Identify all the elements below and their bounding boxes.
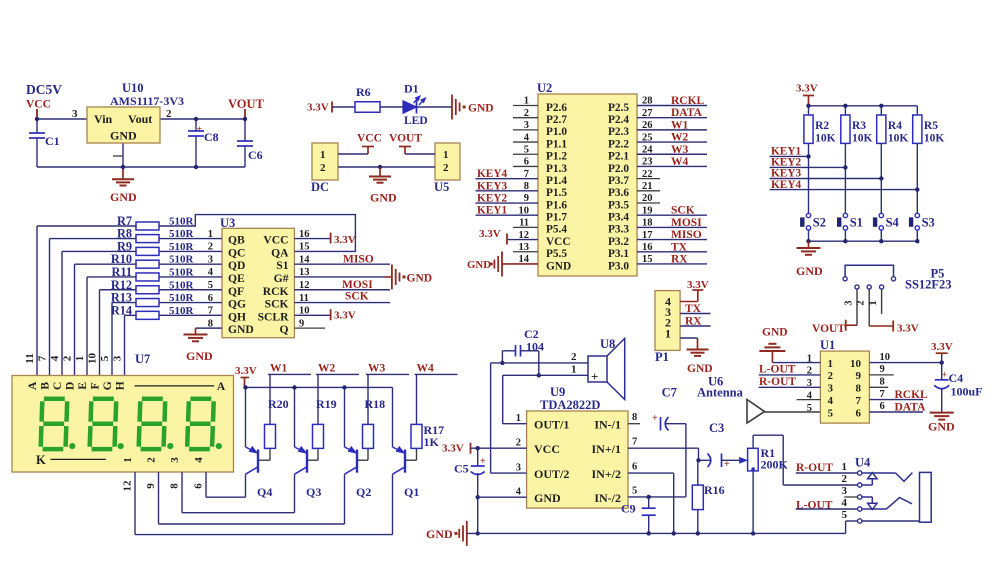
- svg-text:IN-/1: IN-/1: [594, 418, 621, 432]
- svg-text:7: 7: [37, 355, 49, 361]
- svg-text:P3.7: P3.7: [608, 175, 629, 187]
- svg-text:GND: GND: [228, 323, 254, 336]
- svg-text:L-OUT: L-OUT: [759, 364, 796, 376]
- svg-text:U9: U9: [550, 385, 565, 399]
- svg-text:OUT/1: OUT/1: [534, 418, 569, 432]
- svg-text:10: 10: [850, 358, 862, 370]
- svg-text:SS12F23: SS12F23: [905, 278, 952, 292]
- svg-text:1: 1: [122, 457, 134, 463]
- svg-text:W2: W2: [318, 363, 336, 375]
- svg-text:U4: U4: [855, 456, 871, 470]
- svg-text:B: B: [40, 382, 52, 390]
- svg-text:2: 2: [146, 457, 158, 463]
- svg-text:L-OUT: L-OUT: [796, 500, 833, 512]
- svg-text:10K: 10K: [924, 133, 945, 145]
- svg-text:P2.0: P2.0: [608, 163, 629, 175]
- svg-text:VCC: VCC: [357, 133, 382, 145]
- svg-text:SCK: SCK: [265, 298, 289, 311]
- svg-text:P3.0: P3.0: [608, 260, 629, 272]
- svg-text:8: 8: [169, 483, 181, 489]
- svg-text:C5: C5: [454, 462, 469, 476]
- svg-text:P3.5: P3.5: [608, 199, 629, 211]
- svg-text:7: 7: [856, 395, 862, 407]
- svg-text:IN-/2: IN-/2: [594, 491, 621, 505]
- svg-text:R2: R2: [815, 120, 829, 132]
- svg-text:2: 2: [516, 437, 521, 448]
- svg-text:8: 8: [880, 377, 885, 388]
- svg-text:R-OUT: R-OUT: [796, 462, 833, 474]
- svg-text:SCK: SCK: [345, 291, 369, 303]
- svg-text:Antenna: Antenna: [697, 386, 744, 400]
- svg-text:P3.6: P3.6: [608, 187, 629, 199]
- svg-text:VOUT: VOUT: [228, 97, 265, 111]
- svg-text:10K: 10K: [888, 133, 909, 145]
- svg-text:D1: D1: [404, 82, 419, 96]
- svg-text:1: 1: [320, 149, 326, 161]
- svg-text:IN+/1: IN+/1: [591, 442, 621, 456]
- svg-text:1K: 1K: [424, 435, 440, 449]
- svg-text:GND: GND: [370, 191, 397, 205]
- svg-text:P3.4: P3.4: [608, 212, 629, 224]
- svg-text:QC: QC: [228, 246, 245, 259]
- svg-text:IN+/2: IN+/2: [591, 467, 621, 481]
- svg-text:G: G: [102, 381, 114, 390]
- svg-text:P2.1: P2.1: [608, 151, 629, 163]
- svg-text:A: A: [27, 381, 39, 390]
- svg-text:6: 6: [880, 401, 885, 412]
- svg-text:GND: GND: [687, 363, 713, 375]
- svg-text:Q3: Q3: [306, 485, 321, 499]
- svg-text:W3: W3: [671, 144, 689, 156]
- svg-text:DATA: DATA: [895, 402, 927, 414]
- svg-text:10K: 10K: [852, 133, 873, 145]
- svg-text:1: 1: [842, 461, 848, 473]
- svg-text:2: 2: [320, 162, 326, 174]
- svg-text:R18: R18: [365, 397, 386, 411]
- svg-text:RX: RX: [671, 253, 688, 265]
- svg-text:RCKL: RCKL: [671, 95, 705, 107]
- svg-text:Vout: Vout: [128, 112, 152, 126]
- svg-text:3.3V: 3.3V: [796, 83, 818, 95]
- svg-text:TX: TX: [685, 303, 702, 315]
- svg-text:SCLR: SCLR: [258, 310, 290, 323]
- svg-text:E: E: [77, 382, 89, 390]
- svg-text:P1.7: P1.7: [546, 212, 567, 224]
- svg-text:P2.4: P2.4: [608, 114, 629, 126]
- svg-text:3.3V: 3.3V: [334, 309, 356, 321]
- svg-text:1: 1: [571, 364, 577, 376]
- svg-text:9: 9: [880, 364, 885, 375]
- svg-text:KEY2: KEY2: [477, 193, 507, 205]
- svg-text:5: 5: [842, 509, 848, 521]
- svg-text:C3: C3: [709, 421, 724, 435]
- svg-text:C7: C7: [662, 386, 677, 400]
- svg-text:W3: W3: [368, 363, 386, 375]
- svg-text:W4: W4: [671, 156, 689, 168]
- svg-text:R-OUT: R-OUT: [759, 376, 796, 388]
- svg-text:1: 1: [868, 301, 879, 306]
- svg-text:11: 11: [24, 353, 36, 363]
- svg-text:3.3V: 3.3V: [897, 322, 919, 334]
- svg-text:6: 6: [193, 483, 205, 489]
- svg-text:1: 1: [828, 358, 834, 370]
- svg-text:W1: W1: [671, 119, 689, 131]
- svg-text:1: 1: [74, 356, 86, 362]
- svg-text:Q2: Q2: [356, 485, 371, 499]
- svg-text:Q: Q: [279, 323, 288, 336]
- svg-text:R5: R5: [924, 120, 938, 132]
- svg-text:QG: QG: [228, 298, 246, 311]
- svg-text:4: 4: [49, 355, 61, 361]
- svg-text:4: 4: [516, 486, 522, 497]
- svg-text:P2.7: P2.7: [546, 114, 567, 126]
- svg-text:U10: U10: [122, 81, 144, 95]
- svg-text:QH: QH: [228, 310, 246, 323]
- svg-text:U2: U2: [537, 81, 552, 95]
- svg-text:GND: GND: [534, 491, 561, 505]
- svg-text:2: 2: [571, 351, 577, 363]
- svg-text:U7: U7: [135, 352, 150, 366]
- svg-text:7: 7: [880, 389, 885, 400]
- svg-text:P3.2: P3.2: [608, 236, 629, 248]
- svg-text:P3.3: P3.3: [608, 224, 629, 236]
- svg-text:10K: 10K: [815, 133, 836, 145]
- svg-text:2: 2: [856, 301, 867, 306]
- svg-text:VCC: VCC: [546, 236, 570, 248]
- svg-text:7: 7: [632, 436, 637, 447]
- svg-text:DC5V: DC5V: [26, 82, 62, 97]
- svg-text:+: +: [591, 369, 598, 384]
- svg-text:U5: U5: [434, 180, 449, 194]
- svg-text:3: 3: [516, 462, 521, 473]
- svg-text:RCK: RCK: [263, 285, 289, 298]
- svg-text:R3: R3: [852, 120, 866, 132]
- svg-text:9: 9: [145, 483, 157, 489]
- svg-text:1: 1: [665, 327, 671, 341]
- svg-text:S4: S4: [886, 216, 900, 230]
- svg-text:LED: LED: [404, 115, 428, 127]
- svg-text:QD: QD: [228, 259, 245, 272]
- svg-text:S1: S1: [850, 216, 863, 230]
- svg-text:4: 4: [828, 395, 834, 407]
- svg-text:GND: GND: [796, 264, 823, 278]
- svg-text:5: 5: [807, 403, 812, 414]
- svg-text:GND: GND: [110, 129, 137, 143]
- svg-text:VCC: VCC: [534, 442, 560, 456]
- svg-text:C4: C4: [949, 371, 964, 385]
- svg-text:+: +: [652, 413, 658, 424]
- svg-text:P1.5: P1.5: [546, 187, 567, 199]
- svg-text:3.3V: 3.3V: [931, 341, 953, 353]
- svg-text:6: 6: [632, 461, 637, 472]
- svg-text:2: 2: [166, 108, 172, 120]
- svg-text:GND: GND: [546, 260, 571, 272]
- svg-text:W4: W4: [417, 363, 435, 375]
- svg-text:3: 3: [112, 355, 124, 361]
- svg-text:3.3V: 3.3V: [687, 279, 709, 291]
- svg-text:3: 3: [842, 485, 848, 497]
- svg-text:P1.2: P1.2: [546, 151, 567, 163]
- svg-text:SCK: SCK: [671, 205, 695, 217]
- svg-text:P2.6: P2.6: [546, 102, 567, 114]
- svg-text:R16: R16: [704, 483, 725, 497]
- svg-text:VOUT: VOUT: [812, 323, 845, 335]
- svg-text:R4: R4: [888, 120, 902, 132]
- svg-text:MISO: MISO: [671, 229, 702, 241]
- svg-text:Vin: Vin: [94, 112, 113, 126]
- svg-text:QF: QF: [228, 285, 244, 298]
- svg-text:AMS1117-3V3: AMS1117-3V3: [110, 94, 184, 108]
- svg-text:W2: W2: [671, 132, 689, 144]
- svg-text:C6: C6: [248, 148, 263, 162]
- svg-text:6: 6: [856, 407, 862, 419]
- svg-text:100uF: 100uF: [951, 385, 983, 399]
- svg-text:DC: DC: [311, 180, 329, 194]
- svg-text:1: 1: [443, 149, 449, 161]
- svg-text:2: 2: [828, 370, 834, 382]
- svg-text:1: 1: [516, 413, 521, 424]
- svg-text:TDA2822D: TDA2822D: [540, 398, 600, 412]
- svg-text:10: 10: [880, 352, 891, 363]
- svg-text:P5.4: P5.4: [546, 224, 567, 236]
- svg-text:VOUT: VOUT: [389, 133, 422, 145]
- svg-text:GND: GND: [110, 190, 137, 204]
- svg-text:QB: QB: [228, 234, 245, 247]
- svg-text:GND: GND: [467, 259, 491, 271]
- svg-text:MOSI: MOSI: [671, 217, 702, 229]
- svg-text:5: 5: [828, 407, 834, 419]
- svg-text:2: 2: [443, 162, 449, 174]
- svg-text:A: A: [217, 381, 226, 393]
- svg-text:S2: S2: [813, 216, 826, 230]
- svg-text:200K: 200K: [761, 458, 789, 472]
- svg-text:R19: R19: [316, 397, 337, 411]
- svg-text:GND: GND: [186, 349, 213, 363]
- svg-text:8: 8: [632, 412, 637, 423]
- svg-text:3.3V: 3.3V: [479, 228, 501, 240]
- svg-text:MOSI: MOSI: [342, 279, 373, 291]
- svg-text:U3: U3: [220, 216, 235, 230]
- svg-text:U1: U1: [820, 338, 835, 352]
- svg-text:TX: TX: [671, 241, 688, 253]
- svg-text:4: 4: [842, 497, 848, 509]
- svg-text:P3.1: P3.1: [608, 248, 629, 260]
- svg-text:5: 5: [99, 355, 111, 361]
- svg-text:KEY4: KEY4: [477, 168, 507, 180]
- svg-text:VCC: VCC: [26, 99, 51, 111]
- svg-text:+: +: [942, 370, 947, 380]
- svg-text:S1: S1: [276, 259, 288, 272]
- svg-text:GND: GND: [468, 103, 494, 115]
- svg-text:C9: C9: [621, 502, 636, 516]
- svg-text:P2.3: P2.3: [608, 126, 629, 138]
- svg-text:OUT/2: OUT/2: [534, 467, 569, 481]
- svg-text:3: 3: [844, 301, 855, 306]
- svg-text:P1.0: P1.0: [546, 126, 567, 138]
- svg-text:3.3V: 3.3V: [235, 365, 257, 377]
- svg-text:12: 12: [122, 480, 134, 492]
- svg-text:KEY1: KEY1: [477, 205, 507, 217]
- svg-text:RCKL: RCKL: [895, 389, 929, 401]
- svg-text:W1: W1: [270, 363, 288, 375]
- svg-text:RX: RX: [685, 316, 702, 328]
- svg-text:+: +: [480, 456, 486, 467]
- svg-text:P1.4: P1.4: [546, 175, 567, 187]
- svg-text:P5.5: P5.5: [546, 248, 567, 260]
- svg-text:QE: QE: [228, 272, 245, 285]
- svg-text:P2.2: P2.2: [608, 138, 629, 150]
- svg-text:4: 4: [193, 457, 205, 463]
- svg-text:R6: R6: [356, 85, 371, 99]
- svg-text:K: K: [36, 453, 46, 467]
- svg-text:D: D: [65, 382, 77, 390]
- svg-text:DATA: DATA: [671, 107, 703, 119]
- svg-text:3: 3: [169, 457, 181, 463]
- svg-text:10: 10: [87, 353, 99, 365]
- svg-text:3: 3: [72, 108, 78, 120]
- svg-text:GND: GND: [426, 527, 453, 541]
- svg-text:9: 9: [856, 370, 862, 382]
- svg-text:Q1: Q1: [404, 485, 419, 499]
- svg-text:104: 104: [526, 340, 544, 354]
- svg-text:5: 5: [632, 485, 637, 496]
- svg-text:8: 8: [856, 383, 862, 395]
- svg-text:3: 3: [828, 383, 834, 395]
- svg-text:C1: C1: [45, 134, 60, 148]
- svg-text:P1.6: P1.6: [546, 199, 567, 211]
- svg-text:P2.5: P2.5: [608, 102, 629, 114]
- svg-text:C8: C8: [204, 130, 219, 144]
- svg-text:KEY4: KEY4: [771, 179, 801, 191]
- svg-text:F: F: [90, 382, 102, 389]
- svg-text:H: H: [115, 381, 127, 390]
- svg-text:+: +: [197, 125, 203, 136]
- svg-text:Q4: Q4: [257, 485, 272, 499]
- svg-text:KEY3: KEY3: [477, 180, 507, 192]
- svg-text:QA: QA: [271, 246, 289, 259]
- svg-text:P1.3: P1.3: [546, 163, 567, 175]
- svg-text:P1: P1: [655, 350, 669, 364]
- svg-text:C: C: [52, 382, 64, 390]
- svg-text:R20: R20: [268, 397, 289, 411]
- svg-text:2: 2: [842, 473, 848, 485]
- svg-text:MISO: MISO: [343, 253, 374, 265]
- svg-text:3.3V: 3.3V: [307, 102, 329, 114]
- svg-text:U8: U8: [600, 337, 615, 351]
- svg-text:GND: GND: [762, 327, 788, 339]
- svg-text:S3: S3: [922, 216, 935, 230]
- svg-text:G#: G#: [274, 272, 289, 285]
- svg-text:P1.1: P1.1: [546, 138, 567, 150]
- svg-text:GND: GND: [407, 272, 433, 284]
- svg-text:3.3V: 3.3V: [334, 234, 356, 246]
- svg-text:2: 2: [62, 355, 74, 361]
- svg-text:3.3V: 3.3V: [442, 443, 464, 455]
- svg-text:GND: GND: [928, 420, 955, 434]
- svg-text:VCC: VCC: [263, 234, 288, 247]
